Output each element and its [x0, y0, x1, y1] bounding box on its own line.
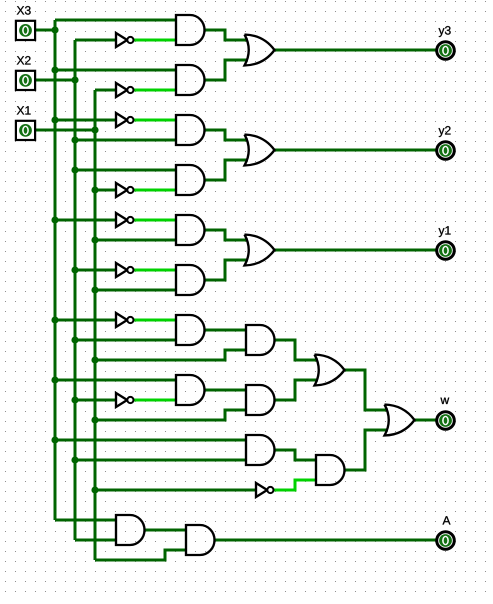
junction X2 row 460 [71, 456, 78, 463]
AND gate A12 [316, 455, 345, 485]
inverter U4 [116, 183, 134, 197]
wire X3 to inverter U5 input [55, 219, 115, 222]
wire AND13 to AND14 top input [144, 529, 187, 532]
wire X3 pin to bus [36, 29, 55, 32]
label w [440, 398, 449, 404]
junction X2 row 340 [71, 336, 78, 343]
inverter U5 [116, 213, 134, 227]
junction X1 row 490 [91, 486, 98, 493]
AND gate A8 [176, 375, 205, 405]
junction X2 row 170 [71, 166, 78, 173]
wire OR4 to OR5 top input [344, 370, 388, 410]
wire inverter U9 output (high) [134, 399, 177, 402]
wire AND11 to AND12 top input [274, 450, 317, 460]
wire AND1 to OR1 top input [204, 30, 248, 40]
AND gate A3 [176, 115, 205, 145]
wire AND2 to OR1 bottom input [204, 60, 248, 80]
wire X1 to inverter U7 input [95, 489, 255, 492]
AND gate A11 [246, 435, 275, 465]
wire X1 pin to bus [36, 129, 95, 132]
wire AND8 to AND10 top input [204, 389, 247, 392]
OR gate O4 [315, 355, 345, 386]
wire X1 to AND9 bottom input [95, 350, 247, 360]
label A [443, 516, 451, 524]
wire X1 to AND6 bottom input [95, 289, 177, 292]
wire OR1 to output y3 [274, 49, 437, 52]
output pin w [437, 412, 455, 430]
wire AND12 to OR5 bottom input [344, 430, 388, 470]
input pin X1 [16, 121, 35, 140]
wire inverter U6 output (high) [134, 269, 177, 272]
inverter U6 [116, 263, 134, 277]
output pin A [437, 532, 455, 550]
wire X3 to AND11 top input [55, 439, 247, 442]
OR gate O2 [245, 135, 275, 166]
wire X2 to inverter U1 input [75, 39, 115, 42]
AND gate A7 [176, 315, 205, 345]
inverter U9 [116, 393, 134, 407]
output pin y1 [437, 242, 455, 260]
output pin y2 [437, 142, 455, 160]
wire inverter U2 output (high) [134, 89, 177, 92]
junction X1 row 190 [91, 186, 98, 193]
wire inverter U8 output (high) [134, 319, 177, 322]
AND gate A5 [176, 215, 205, 245]
wire X1 to AND14 bottom input [95, 550, 187, 560]
wire X3 to AND2 top input [55, 69, 177, 72]
wire X2 vertical bus [74, 40, 77, 540]
junction X2 row 140 [71, 136, 78, 143]
inverter U3 [116, 113, 134, 127]
inverter U8 [116, 313, 134, 327]
wire inverter U7 output to AND12 (high) [274, 480, 317, 490]
junction X3 row 120 [51, 116, 58, 123]
wire inverter U3 output (high) [134, 119, 177, 122]
wire X2 to AND11 bottom input [75, 459, 247, 462]
wire inverter U1 output (high) [134, 39, 177, 42]
wire X3 to AND13 top input [55, 519, 117, 522]
wire X2 to AND13 bottom input [75, 539, 117, 542]
OR gate O1 [245, 35, 275, 66]
label y3 [439, 26, 451, 37]
wire X1 vertical bus [94, 90, 97, 560]
wire AND6 to OR3 bottom input [204, 260, 248, 280]
wire AND9 to OR4 top input [274, 340, 318, 360]
OR gate O5 [385, 405, 415, 436]
junction X1 row 360 [91, 356, 98, 363]
wire X2 pin to bus [36, 79, 75, 82]
junction X1 row 290 [91, 286, 98, 293]
wire X3 to AND8 top input [55, 379, 177, 382]
wire OR2 to output y2 [274, 149, 437, 152]
AND gate A10 [246, 385, 275, 415]
AND gate A6 [176, 265, 205, 295]
junction X1 row 420 [91, 416, 98, 423]
wire X1 to inverter U2 input [95, 89, 115, 92]
junction X1 bus at pin [91, 126, 98, 133]
AND gate A9 [246, 325, 275, 355]
wire AND10 to OR4 bottom input [274, 380, 318, 400]
AND gate A4 [176, 165, 205, 195]
AND gate A2 [176, 65, 205, 95]
inverter U7 [256, 483, 274, 497]
junction X3 row 440 [51, 436, 58, 443]
wire X3 to inverter U8 input [55, 319, 115, 322]
wire X3 to AND1 top input [55, 19, 177, 22]
wire X3 to inverter U3 input [55, 119, 115, 122]
label y2 [439, 126, 451, 137]
wire AND4 to OR2 bottom input [204, 160, 248, 180]
wire inverter U4 output (high) [134, 189, 177, 192]
junction X3 row 70 [51, 66, 58, 73]
wire X1 to inverter U4 input [95, 189, 115, 192]
wire AND7 to AND9 top input [204, 329, 247, 332]
wire AND5 to OR3 top input [204, 230, 248, 240]
wire X2 to inverter U9 input [75, 399, 115, 402]
junction X2 row 400 [71, 396, 78, 403]
wire X2 to AND3 bottom input [75, 139, 177, 142]
wire X1 to AND5 bottom input [95, 239, 177, 242]
output pin y3 [437, 42, 455, 60]
wire X2 to AND4 top input [75, 169, 177, 172]
junction X2 bus at pin [71, 76, 78, 83]
wire X3 vertical bus [54, 20, 57, 520]
wire OR3 to output y1 [274, 249, 437, 252]
AND gate A13 [116, 515, 145, 545]
junction X3 row 380 [51, 376, 58, 383]
inverter U1 [116, 33, 134, 47]
label X2 [17, 56, 31, 64]
input pin X2 [16, 71, 35, 90]
wire OR5 to output w [414, 419, 437, 422]
wire inverter U5 output (high) [134, 219, 177, 222]
junction X3 row 320 [51, 316, 58, 323]
junction X3 row 220 [51, 216, 58, 223]
inverter U2 [116, 83, 134, 97]
junction X2 row 270 [71, 266, 78, 273]
wire AND3 to OR2 top input [204, 130, 248, 140]
label X1 [17, 106, 31, 114]
junction on X3 bus at pin [51, 26, 58, 33]
AND gate A14 [186, 525, 215, 555]
AND gate A1 [176, 15, 205, 45]
wire X1 to AND10 bottom input [95, 410, 247, 420]
OR gate O3 [245, 235, 275, 266]
junction X1 row 240 [91, 236, 98, 243]
wire X2 to AND7 bottom input [75, 339, 177, 342]
input pin X3 [16, 21, 35, 40]
wire X2 to inverter U6 input [75, 269, 115, 272]
label y1 [439, 226, 451, 237]
wire AND14 to output A [214, 539, 437, 542]
label X3 [17, 6, 31, 15]
